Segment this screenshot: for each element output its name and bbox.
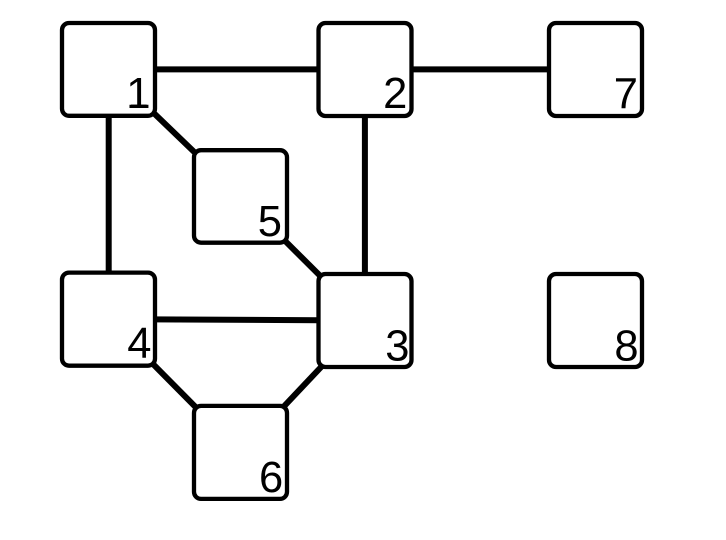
node 1 bbox=[62, 23, 155, 118]
node 7 bbox=[549, 23, 642, 119]
wire edge 4-6 bbox=[109, 319, 241, 452]
svg-text:5: 5 bbox=[258, 198, 282, 246]
node 6 bbox=[194, 406, 287, 502]
svg-text:6: 6 bbox=[259, 454, 283, 502]
svg-text:3: 3 bbox=[385, 323, 409, 371]
wire edge 2-7 bbox=[365, 66, 596, 72]
wire edge 5-3 bbox=[241, 197, 366, 321]
node 2 bbox=[319, 23, 412, 118]
svg-text:7: 7 bbox=[614, 71, 638, 119]
wire edge 1-2 bbox=[109, 66, 366, 72]
node 3 bbox=[319, 274, 412, 371]
wire edge 2-3 bbox=[362, 70, 368, 321]
svg-text:1: 1 bbox=[126, 69, 150, 118]
wire edge 4-3 bbox=[109, 319, 366, 320]
wire edge 1-4 bbox=[106, 70, 112, 320]
svg-text:8: 8 bbox=[614, 322, 638, 370]
node 8 bbox=[549, 274, 642, 370]
node 4 bbox=[62, 273, 155, 368]
node 5 bbox=[194, 150, 287, 246]
wire edge 3-6 bbox=[241, 321, 366, 453]
svg-text:4: 4 bbox=[127, 320, 151, 368]
svg-text:2: 2 bbox=[383, 70, 407, 118]
wire edge 1-5 bbox=[109, 70, 241, 197]
